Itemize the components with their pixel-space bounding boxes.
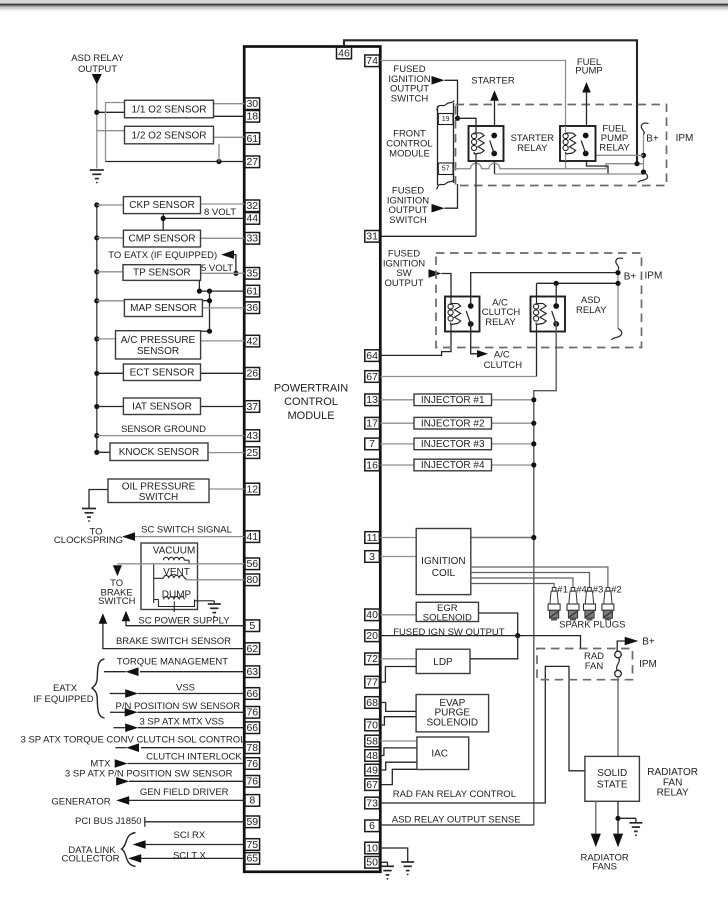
svg-text:20: 20: [366, 630, 378, 642]
svg-text:SOLENOID: SOLENOID: [426, 717, 478, 728]
svg-text:IGNITION: IGNITION: [421, 556, 465, 567]
svg-text:33: 33: [246, 233, 258, 245]
svg-text:FUSED IGN SW OUTPUT: FUSED IGN SW OUTPUT: [393, 627, 505, 638]
svg-text:B+: B+: [642, 636, 655, 647]
svg-text:#2: #2: [611, 585, 622, 596]
svg-text:SWITCH: SWITCH: [389, 215, 427, 226]
svg-text:IAT SENSOR: IAT SENSOR: [132, 401, 192, 412]
svg-text:8: 8: [249, 795, 255, 807]
svg-text:SPARK PLUGS: SPARK PLUGS: [559, 620, 625, 631]
svg-text:SWITCH: SWITCH: [98, 596, 136, 607]
svg-text:GENERATOR: GENERATOR: [51, 797, 110, 808]
svg-text:42: 42: [246, 335, 258, 347]
svg-text:#1: #1: [557, 585, 568, 596]
svg-text:50: 50: [366, 857, 378, 869]
svg-text:VACUUM: VACUUM: [153, 546, 196, 557]
svg-text:ASD RELAY: ASD RELAY: [71, 53, 124, 64]
svg-text:74: 74: [366, 55, 378, 67]
svg-text:RELAY: RELAY: [599, 143, 630, 154]
svg-text:25: 25: [246, 447, 258, 459]
svg-text:73: 73: [366, 797, 378, 809]
svg-text:30: 30: [246, 98, 258, 110]
svg-text:INJECTOR #1: INJECTOR #1: [421, 395, 485, 406]
svg-text:PCI BUS J1850: PCI BUS J1850: [75, 816, 142, 827]
svg-text:DUMP: DUMP: [162, 590, 192, 601]
svg-text:RELAY: RELAY: [485, 317, 516, 328]
svg-text:TO EATX (IF EQUIPPED): TO EATX (IF EQUIPPED): [108, 250, 217, 261]
svg-text:A/C PRESSURE: A/C PRESSURE: [121, 335, 196, 346]
svg-text:64: 64: [366, 350, 378, 362]
svg-text:ECT SENSOR: ECT SENSOR: [130, 367, 195, 378]
svg-text:72: 72: [366, 653, 378, 665]
svg-text:IPM: IPM: [676, 133, 694, 144]
svg-text:76: 76: [246, 758, 258, 770]
svg-text:1/1 O2 SENSOR: 1/1 O2 SENSOR: [131, 104, 206, 115]
svg-text:RELAY: RELAY: [517, 143, 548, 154]
svg-text:KNOCK SENSOR: KNOCK SENSOR: [119, 447, 200, 458]
svg-text:OIL PRESSURE: OIL PRESSURE: [122, 481, 196, 492]
svg-text:59: 59: [246, 816, 258, 828]
svg-text:ASD RELAY OUTPUT SENSE: ASD RELAY OUTPUT SENSE: [392, 814, 521, 825]
svg-text:61: 61: [246, 133, 258, 145]
svg-text:18: 18: [246, 111, 258, 123]
svg-text:13: 13: [366, 394, 378, 406]
svg-text:CLOCKSPRING: CLOCKSPRING: [54, 535, 123, 546]
svg-text:19: 19: [442, 116, 450, 123]
svg-text:76: 76: [246, 776, 258, 788]
svg-text:STATE: STATE: [597, 779, 628, 790]
svg-text:40: 40: [366, 609, 378, 621]
svg-text:36: 36: [246, 302, 258, 314]
svg-text:SOLID: SOLID: [597, 768, 627, 779]
svg-text:80: 80: [246, 574, 258, 586]
svg-text:BRAKE SWITCH SENSOR: BRAKE SWITCH SENSOR: [116, 636, 231, 647]
svg-text:16: 16: [366, 459, 378, 471]
svg-text:P/N POSITION SW SENSOR: P/N POSITION SW SENSOR: [116, 701, 241, 712]
svg-text:IPM: IPM: [639, 659, 657, 670]
svg-text:27: 27: [246, 156, 258, 168]
svg-text:EATX: EATX: [53, 683, 78, 694]
svg-text:5 VOLT: 5 VOLT: [201, 263, 233, 274]
svg-text:7: 7: [369, 438, 375, 450]
svg-text:12: 12: [246, 483, 258, 495]
svg-text:66: 66: [246, 688, 258, 700]
svg-text:B+: B+: [624, 271, 637, 282]
svg-text:MODULE: MODULE: [287, 410, 334, 422]
svg-text:SWITCH: SWITCH: [391, 93, 429, 104]
svg-text:5: 5: [249, 620, 255, 632]
svg-text:66: 66: [246, 722, 258, 734]
svg-text:#3: #3: [593, 585, 604, 596]
svg-text:SENSOR: SENSOR: [137, 346, 179, 357]
svg-text:INJECTOR #4: INJECTOR #4: [421, 460, 485, 471]
svg-text:LDP: LDP: [433, 657, 453, 668]
svg-text:B+: B+: [646, 134, 659, 145]
svg-text:3 SP ATX P/N POSITION SW SEN: 3 SP ATX P/N POSITION SW SENSOR: [65, 769, 233, 780]
svg-text:INJECTOR #2: INJECTOR #2: [421, 418, 485, 429]
svg-text:OUTPUT: OUTPUT: [384, 278, 423, 289]
svg-text:SCI T X: SCI T X: [173, 851, 207, 862]
svg-text:RAD FAN RELAY CONTROL: RAD FAN RELAY CONTROL: [393, 789, 516, 800]
svg-text:TORQUE MANAGEMENT: TORQUE MANAGEMENT: [117, 657, 228, 668]
svg-text:6: 6: [369, 820, 375, 832]
svg-text:67: 67: [366, 371, 378, 383]
svg-text:56: 56: [246, 558, 258, 570]
svg-text:43: 43: [246, 430, 258, 442]
svg-text:SC SWITCH SIGNAL: SC SWITCH SIGNAL: [141, 525, 232, 536]
svg-text:65: 65: [246, 853, 258, 865]
svg-text:MODULE: MODULE: [389, 148, 430, 159]
svg-text:SWITCH: SWITCH: [139, 492, 178, 503]
svg-text:3 SP ATX TORQUE CONV CLUTCH SO: 3 SP ATX TORQUE CONV CLUTCH SOL CONTROL: [21, 735, 246, 746]
svg-text:68: 68: [366, 697, 378, 709]
svg-text:1/2 O2 SENSOR: 1/2 O2 SENSOR: [131, 130, 206, 141]
svg-text:8 VOLT: 8 VOLT: [204, 207, 236, 218]
svg-text:32: 32: [246, 200, 258, 212]
svg-text:46: 46: [338, 47, 350, 59]
svg-text:76: 76: [246, 707, 258, 719]
svg-text:IF EQUIPPED: IF EQUIPPED: [33, 694, 93, 705]
svg-text:INJECTOR #3: INJECTOR #3: [421, 439, 485, 450]
svg-text:GEN FIELD DRIVER: GEN FIELD DRIVER: [140, 787, 229, 798]
svg-text:62: 62: [246, 643, 258, 655]
svg-text:CLUTCH INTERLOCK: CLUTCH INTERLOCK: [146, 752, 242, 763]
svg-text:IPM: IPM: [645, 271, 663, 282]
svg-text:COIL: COIL: [432, 568, 456, 579]
svg-text:11: 11: [367, 532, 378, 544]
svg-text:TP SENSOR: TP SENSOR: [133, 268, 191, 279]
svg-text:OUTPUT: OUTPUT: [78, 64, 117, 75]
svg-text:10: 10: [366, 842, 378, 854]
svg-text:RELAY: RELAY: [657, 788, 689, 799]
svg-text:SOLENOID: SOLENOID: [423, 612, 472, 623]
svg-text:57: 57: [442, 166, 450, 173]
svg-text:77: 77: [366, 676, 378, 688]
svg-text:48: 48: [366, 750, 378, 762]
svg-text:41: 41: [246, 531, 258, 543]
svg-text:44: 44: [246, 213, 258, 225]
svg-text:FANS: FANS: [592, 862, 617, 873]
svg-text:POWERTRAIN: POWERTRAIN: [274, 382, 348, 394]
svg-text:COLLECTOR: COLLECTOR: [62, 854, 120, 865]
svg-text:67: 67: [366, 779, 378, 791]
svg-text:CMP SENSOR: CMP SENSOR: [128, 234, 195, 245]
svg-text:SCI RX: SCI RX: [174, 830, 206, 841]
svg-text:61: 61: [246, 285, 258, 297]
svg-text:70: 70: [366, 719, 378, 731]
svg-text:A/C: A/C: [494, 350, 510, 361]
svg-text:17: 17: [366, 417, 378, 429]
svg-text:78: 78: [246, 742, 258, 754]
svg-text:37: 37: [246, 401, 258, 413]
svg-text:49: 49: [366, 764, 378, 776]
svg-text:STARTER: STARTER: [471, 76, 515, 87]
svg-text:VSS: VSS: [176, 683, 195, 694]
svg-text:IAC: IAC: [431, 748, 448, 759]
svg-text:3 SP ATX MTX VSS: 3 SP ATX MTX VSS: [139, 717, 224, 728]
svg-text:CKP SENSOR: CKP SENSOR: [129, 200, 194, 211]
svg-text:75: 75: [246, 839, 258, 851]
svg-text:CONTROL: CONTROL: [284, 396, 338, 408]
svg-text:FAN: FAN: [585, 661, 604, 672]
svg-text:31: 31: [366, 231, 378, 243]
svg-text:3: 3: [369, 551, 375, 563]
svg-text:RELAY: RELAY: [576, 305, 607, 316]
svg-text:26: 26: [246, 368, 258, 380]
svg-text:PUMP: PUMP: [575, 65, 602, 76]
svg-text:35: 35: [246, 268, 258, 280]
svg-text:#4: #4: [576, 585, 587, 596]
svg-text:MAP SENSOR: MAP SENSOR: [130, 303, 197, 314]
svg-text:CLUTCH: CLUTCH: [484, 360, 523, 371]
svg-text:58: 58: [366, 735, 378, 747]
svg-text:SENSOR GROUND: SENSOR GROUND: [121, 424, 206, 435]
svg-text:63: 63: [246, 666, 258, 678]
